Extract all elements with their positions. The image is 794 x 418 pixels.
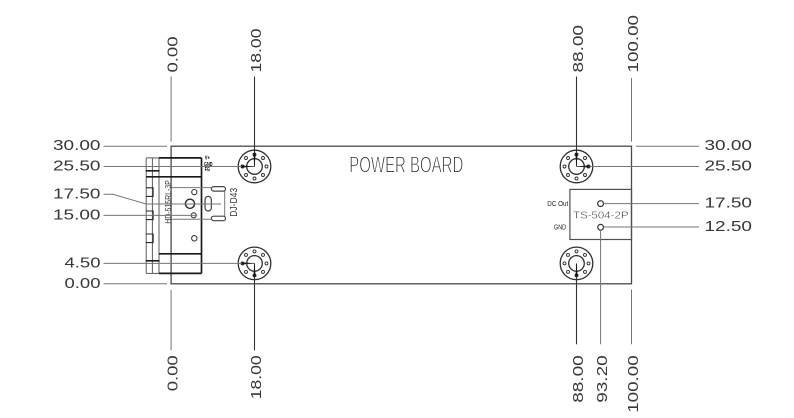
svg-text:GND: GND <box>554 225 566 232</box>
extension line 100.00 bottom <box>631 290 633 345</box>
extension line 88.00 bottom with arrow <box>575 263 577 344</box>
dimension line 25.50 left <box>104 166 255 168</box>
svg-text:POWER BOARD: POWER BOARD <box>349 151 463 177</box>
extension line 0.00 bottom <box>170 290 172 351</box>
connector J1 center hole <box>185 199 194 208</box>
arrowhead 25.50 right <box>577 165 590 167</box>
mounting hole H4 bottom-right <box>560 247 593 280</box>
connector J1 screw hole <box>191 213 196 218</box>
svg-text:FG: FG <box>205 167 210 173</box>
board outline POWER BOARD <box>171 146 631 284</box>
connector J1 pin 1 <box>146 188 153 197</box>
DC jack DJ-D43 top slot <box>211 187 225 192</box>
svg-text:100.00: 100.00 <box>625 355 642 413</box>
extension line 0.00 top <box>170 77 172 142</box>
dimension line 4.50 left <box>104 262 255 264</box>
svg-text:17.50: 17.50 <box>705 195 753 212</box>
svg-text:18.00: 18.00 <box>248 355 265 399</box>
svg-text:88.00: 88.00 <box>570 355 587 403</box>
svg-text:30.00: 30.00 <box>53 137 101 154</box>
svg-text:18.00: 18.00 <box>248 29 265 73</box>
arrowhead 25.50 left <box>242 165 255 167</box>
svg-text:0.00: 0.00 <box>165 37 182 73</box>
connector J1 pin 2 <box>146 211 153 220</box>
svg-text:4.50: 4.50 <box>65 254 101 271</box>
connector J1 pin 3 <box>146 234 153 243</box>
dimension line 0.00 left <box>104 283 168 285</box>
svg-text:88.00: 88.00 <box>570 25 587 73</box>
dimension line 17.50 right <box>604 203 700 205</box>
svg-text:DJ-D43: DJ-D43 <box>229 187 240 216</box>
connector J2 TS-504-2P box <box>570 189 632 239</box>
mounting hole H2 top-right <box>560 150 593 183</box>
extension line 93.20 bottom from GND pin <box>600 230 602 344</box>
svg-text:DC Out: DC Out <box>547 201 568 208</box>
connector J1 peg hole upper <box>192 190 197 195</box>
connector J2 pin GND <box>598 224 604 230</box>
dimension line 25.50 right <box>577 166 700 168</box>
connector J2 pin DC Out <box>598 201 604 207</box>
extension line 88.00 top with arrow <box>575 77 577 167</box>
leader 17.50 left <box>104 194 222 204</box>
extension line 18.00 bottom with arrow <box>253 263 255 350</box>
svg-text:17.50: 17.50 <box>53 185 101 202</box>
mounting hole H1 top-left <box>238 150 271 183</box>
svg-text:0.00: 0.00 <box>165 355 182 391</box>
DC jack DJ-D43 bottom slot <box>211 216 225 221</box>
svg-text:V+: V+ <box>205 156 210 162</box>
svg-text:0.00: 0.00 <box>65 275 101 292</box>
svg-text:25.50: 25.50 <box>53 158 101 175</box>
svg-text:93.20: 93.20 <box>594 355 611 403</box>
extension line 100.00 top <box>631 78 633 142</box>
mounting hole H3 bottom-left <box>238 247 271 280</box>
dimension line 12.50 right <box>604 226 700 228</box>
svg-text:TS-504-2P: TS-504-2P <box>573 211 629 222</box>
board title text POWER BOARD <box>349 151 463 177</box>
DC jack DJ-D43 outline <box>172 188 225 220</box>
svg-text:25.50: 25.50 <box>705 157 753 174</box>
arrowhead 4.50 left <box>242 262 255 264</box>
extension line 18.00 top with arrow <box>253 77 255 167</box>
dimension line 30.00 left <box>104 145 168 147</box>
dimension line 15.00 left <box>104 214 198 216</box>
svg-text:12.50: 12.50 <box>705 218 753 235</box>
svg-text:30.00: 30.00 <box>705 137 753 154</box>
connector J1 HD-515RL-3P body <box>146 158 202 274</box>
svg-text:15.00: 15.00 <box>53 206 101 223</box>
svg-text:100.00: 100.00 <box>625 15 642 73</box>
dimension line 30.00 right <box>636 145 699 147</box>
connector J1 peg hole lower <box>192 236 197 241</box>
connector J1 label HD-515RL-3P <box>163 180 173 224</box>
DC jack label DJ-D43 <box>229 187 240 216</box>
DC jack DJ-D43 vertical slot <box>205 196 211 211</box>
svg-text:HD-515RL-3P: HD-515RL-3P <box>163 180 173 224</box>
